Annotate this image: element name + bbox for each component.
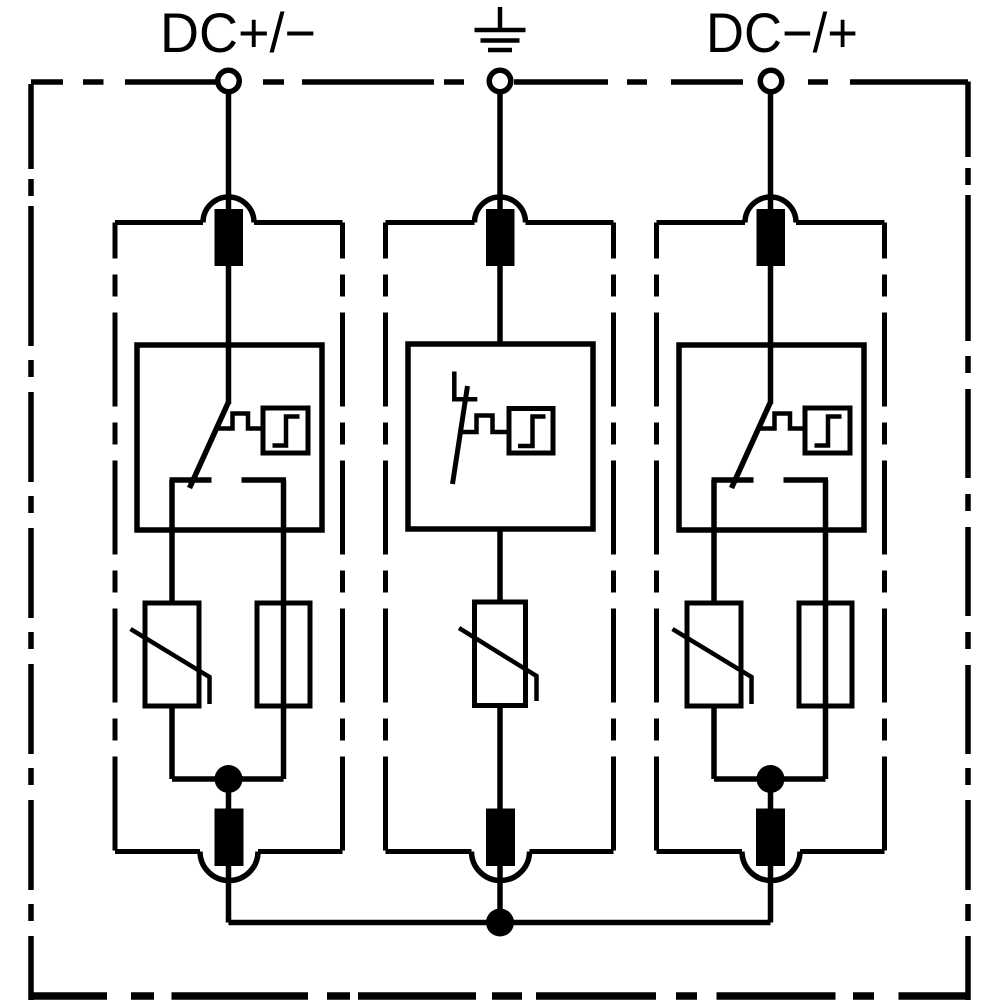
thermal disconnect arc top module 1 — [203, 197, 254, 222]
step waveform glyph module 3 — [815, 417, 842, 446]
thermal disconnect arc bottom module 1 — [200, 852, 258, 881]
enclosure boundary right edge (dash-dot) — [965, 82, 971, 1000]
wire terminal3 to disconnector box — [768, 94, 774, 404]
module 1 enclosure (dashed box) — [115, 223, 343, 852]
module 3 enclosure (dashed box) — [657, 223, 885, 852]
left branch wire (to varistor) module 1 — [169, 480, 175, 779]
right branch wire (through fuse element) module 1 — [281, 480, 287, 779]
bottom link wire module 1 — [172, 776, 284, 782]
thermal disconnect arc top module 3 — [745, 197, 796, 222]
terminal X3 DC-/+ — [760, 70, 782, 92]
left branch wire (to varistor) module 3 — [711, 480, 717, 779]
varistor RV3 diagonal stroke — [673, 629, 752, 704]
varistor RV2 diagonal stroke — [459, 628, 537, 701]
varistor RV1 module 1 — [145, 603, 199, 706]
thermal disconnect element (black) top module 1 — [215, 209, 244, 266]
status indicator square module 1 — [263, 408, 308, 453]
spark gap/monitoring box module 2 — [408, 344, 593, 529]
fuse element module 3 — [799, 603, 852, 706]
wire varistor to bottom junction module 2 — [497, 706, 503, 923]
switch blade module 3 — [732, 402, 771, 488]
wire terminal1 to disconnector box — [226, 94, 232, 404]
terminal X1 DC+/- — [218, 70, 240, 92]
thermal disconnect arc bottom module 2 — [472, 852, 530, 881]
thermal disconnect element (black) bottom module 3 — [756, 809, 785, 867]
switch blade module 1 — [190, 402, 229, 488]
trigger stub and crossbar module 2 — [454, 372, 477, 400]
module 2 enclosure (dashed box) — [386, 223, 614, 852]
enclosure boundary bottom edge (dash-dot) — [31, 992, 968, 1000]
bottom interconnect wire (modules common) — [229, 920, 771, 926]
status indicator square module 3 — [805, 408, 850, 453]
bottom link wire module 3 — [714, 776, 826, 782]
wire junction to bottom interconnect module 1 — [226, 779, 232, 923]
junction node module 1 — [215, 765, 243, 793]
thermal disconnect element (black) bottom module 2 — [486, 809, 515, 867]
svg-text:DC+/−: DC+/− — [160, 1, 316, 64]
step waveform glyph module 2 — [518, 417, 546, 447]
thermal disconnect element (black) bottom module 1 — [215, 809, 244, 867]
wire box to varistor module 2 — [497, 529, 503, 602]
enclosure boundary left edge (dash-dot) — [28, 84, 34, 1000]
thermal disconnect arc top module 2 — [475, 197, 526, 222]
varistor RV3 module 3 — [687, 603, 741, 706]
switch lower contact rails module 3 — [712, 477, 829, 483]
staircase link to status square module 2 — [459, 416, 510, 433]
disconnector/monitoring box module 3 — [679, 345, 864, 530]
staircase link to status square module 1 — [217, 414, 264, 429]
enclosure boundary top edge (dash-dot) — [31, 79, 968, 85]
terminal X2 ground — [489, 70, 511, 92]
thermal disconnect arc bottom module 3 — [742, 852, 800, 881]
step waveform glyph module 1 — [273, 417, 300, 446]
bottom common junction node — [486, 909, 514, 937]
svg-text:DC−/+: DC−/+ — [706, 1, 858, 64]
junction node module 3 — [757, 765, 785, 793]
thermal disconnect element (black) top module 3 — [757, 209, 786, 266]
disconnector/monitoring box module 1 — [137, 345, 322, 530]
right branch wire (through fuse element) module 3 — [823, 480, 829, 779]
wire junction to bottom interconnect module 3 — [768, 779, 774, 923]
wire terminal2 to spark gap box — [497, 94, 503, 344]
ground symbol (earth) — [475, 7, 526, 50]
fuse element module 1 — [257, 603, 310, 706]
varistor RV2 module 2 — [475, 602, 526, 706]
staircase link to status square module 3 — [759, 414, 806, 429]
varistor RV1 diagonal stroke — [131, 629, 210, 704]
status indicator square module 2 — [509, 409, 553, 454]
switch lower contact rails module 1 — [170, 477, 287, 483]
thermal disconnect element (black) top module 2 — [486, 209, 515, 266]
slanted electrode line module 2 — [453, 386, 468, 484]
